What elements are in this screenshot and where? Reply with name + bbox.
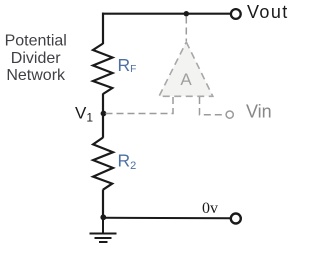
svg-text:V1: V1 [75, 103, 93, 124]
op-amp A (ghosted) [105, 17, 272, 122]
node junction bottom [100, 214, 106, 220]
svg-text:Potential: Potential [5, 32, 67, 49]
terminal 0v circle [231, 214, 241, 224]
op-amp triangle body [159, 42, 213, 96]
wire dashed right input stub to Vin [200, 97, 226, 115]
terminal Vout circle [231, 9, 241, 19]
svg-text:0v: 0v [202, 200, 218, 217]
svg-text:A: A [180, 70, 192, 89]
wire dashed left input stub [105, 97, 173, 114]
svg-text:Vin: Vin [246, 101, 272, 121]
ground [90, 218, 117, 242]
node V1 junction dot [101, 111, 107, 117]
wire bottom horizontal [103, 217, 231, 219]
svg-text:R2: R2 [118, 151, 137, 172]
wire top horizontal [102, 13, 231, 15]
node junction at Vout line [184, 11, 189, 16]
wire dashed from top junction to op-amp apex [185, 17, 187, 42]
resistor RF [93, 44, 113, 95]
resistor R2 [93, 138, 113, 190]
wire top vertical [102, 13, 104, 44]
svg-text:Network: Network [6, 67, 66, 84]
svg-text:Vout: Vout [247, 2, 289, 22]
wire RF to V1 to R2 [102, 94, 104, 138]
svg-text:RF: RF [118, 55, 137, 75]
wire R2 to ground node [102, 190, 104, 219]
svg-text:Divider: Divider [11, 50, 61, 67]
terminal Vin circle [226, 111, 233, 118]
